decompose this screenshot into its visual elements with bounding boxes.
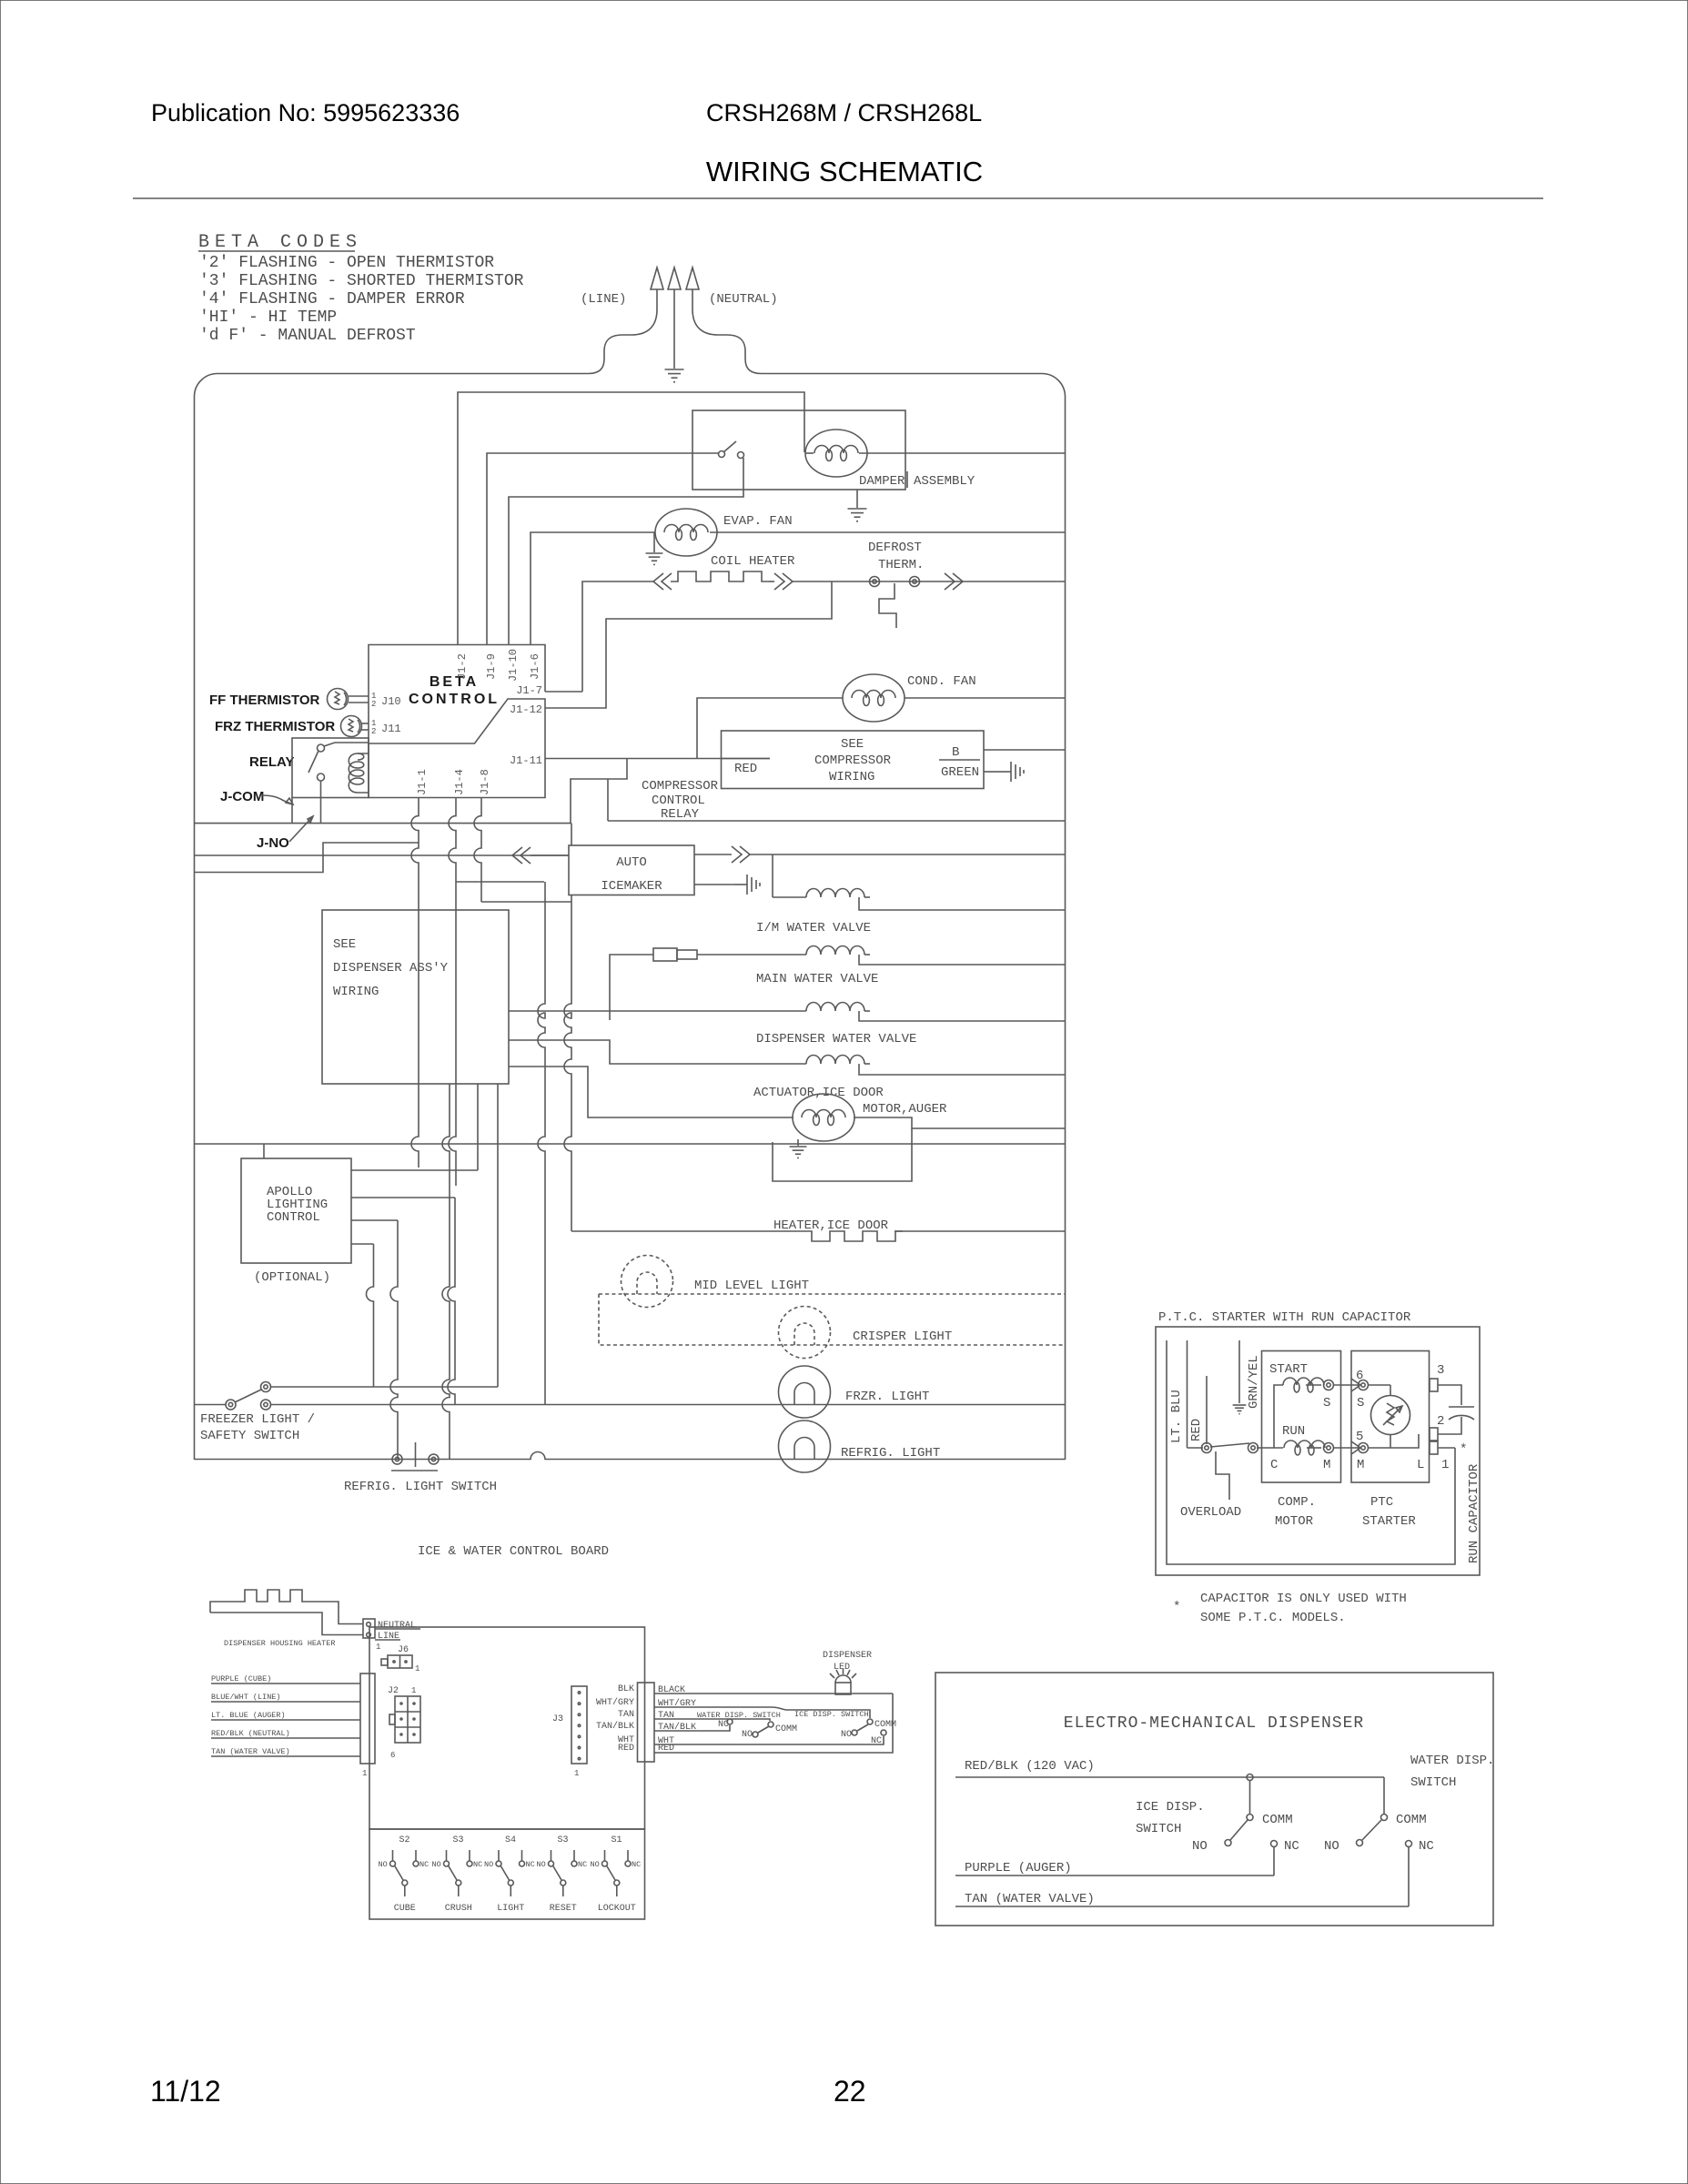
svg-text:MOTOR,AUGER: MOTOR,AUGER — [863, 1102, 947, 1117]
svg-text:COMPRESSOR: COMPRESSOR — [814, 753, 892, 768]
heater ice door element — [804, 1231, 903, 1241]
coil heater to defrost wire — [793, 581, 832, 582]
B wire to neutral — [984, 749, 1065, 751]
earth ground symbol — [665, 369, 684, 382]
svg-text:ICE & WATER CONTROL BOARD: ICE & WATER CONTROL BOARD — [418, 1544, 609, 1559]
svg-text:J1-8: J1-8 — [479, 769, 491, 795]
svg-text:EVAP. FAN: EVAP. FAN — [723, 514, 793, 529]
svg-text:1: 1 — [1441, 1458, 1449, 1472]
svg-text:J1-9: J1-9 — [485, 653, 498, 680]
svg-text:CONTROL: CONTROL — [267, 1210, 320, 1225]
junction — [1247, 1774, 1253, 1781]
svg-text:SWITCH: SWITCH — [1136, 1822, 1181, 1836]
start winding left lead — [1274, 1385, 1283, 1448]
svg-text:NC: NC — [578, 1860, 587, 1869]
svg-text:CONTROL: CONTROL — [409, 692, 500, 707]
svg-text:'4' FLASHING - DAMPER ERROR: '4' FLASHING - DAMPER ERROR — [199, 290, 465, 308]
svg-text:CAPACITOR IS ONLY USED WITH: CAPACITOR IS ONLY USED WITH — [1200, 1592, 1407, 1606]
earth stem — [673, 289, 675, 369]
svg-text:2: 2 — [371, 700, 376, 709]
ice switch NC — [1271, 1841, 1278, 1847]
water switch NC — [1406, 1841, 1412, 1847]
ptc terminal 5 — [1351, 1441, 1360, 1454]
svg-text:DISPENSER HOUSING HEATER: DISPENSER HOUSING HEATER — [224, 1639, 335, 1648]
evap fan ground stem — [653, 532, 655, 552]
coil heater lead — [769, 581, 774, 582]
line arrow — [651, 268, 663, 289]
svg-text:FRZ THERMISTOR: FRZ THERMISTOR — [215, 719, 335, 734]
damper assembly box — [692, 410, 905, 490]
J-NO leader — [289, 816, 313, 842]
green wire — [984, 771, 998, 773]
ice switch COMM contact — [867, 1719, 873, 1724]
svg-text:SOME P.T.C. MODELS.: SOME P.T.C. MODELS. — [1200, 1611, 1346, 1625]
lt blu wire and run loop — [1167, 1340, 1455, 1564]
im valve lead — [773, 896, 806, 898]
svg-text:Publication No: 5995623336: Publication No: 5995623336 — [151, 99, 460, 126]
icemaker wire to neutral — [750, 854, 1065, 855]
damper switch pivot — [719, 451, 725, 458]
right connector — [638, 1683, 655, 1762]
svg-text:FRZR. LIGHT: FRZR. LIGHT — [845, 1390, 929, 1404]
svg-text:M: M — [1357, 1458, 1364, 1472]
svg-text:TAN (WATER VALVE): TAN (WATER VALVE) — [211, 1747, 290, 1756]
svg-text:NC: NC — [871, 1736, 882, 1746]
svg-text:NO: NO — [537, 1860, 546, 1869]
condenser fan motor — [843, 674, 905, 722]
defrost therm terminal 2 — [910, 577, 920, 587]
ptc disc — [1371, 1396, 1410, 1435]
compressor relay wire — [571, 759, 627, 824]
svg-text:NC: NC — [632, 1860, 641, 1869]
red return wire — [654, 1694, 893, 1753]
svg-text:J-COM: J-COM — [220, 789, 264, 804]
wire J1-7 riser to coil heater — [582, 581, 653, 692]
refrig switch contact 1 — [392, 1454, 402, 1464]
svg-text:P.T.C. STARTER WITH RUN CAPACI: P.T.C. STARTER WITH RUN CAPACITOR — [1158, 1310, 1411, 1325]
switch S4 LIGHT — [484, 1835, 535, 1914]
svg-text:COMPRESSOR: COMPRESSOR — [642, 779, 719, 794]
svg-text:M: M — [1323, 1458, 1330, 1472]
beta codes underline — [198, 250, 355, 252]
crisper light — [779, 1307, 831, 1359]
ice switch riser — [1249, 1781, 1251, 1814]
dispenser water valve coil — [806, 1003, 864, 1012]
main valve lead right — [859, 955, 1065, 965]
damper ground — [848, 509, 867, 521]
line neutral connector — [363, 1619, 375, 1638]
svg-text:NC: NC — [419, 1860, 429, 1869]
heater ice door wire right — [895, 1230, 1065, 1232]
svg-text:DAMPER: DAMPER — [859, 474, 905, 489]
svg-text:11/12: 11/12 — [150, 2075, 221, 2108]
capacitor bottom wire — [1438, 1417, 1461, 1434]
damper motor left lead — [805, 452, 814, 454]
svg-text:'HI' - HI TEMP: 'HI' - HI TEMP — [199, 308, 337, 327]
svg-text:NO: NO — [1324, 1839, 1339, 1854]
vertical bus J1-8 — [474, 798, 481, 902]
svg-text:J1-2: J1-2 — [456, 653, 469, 680]
svg-text:RUN: RUN — [1282, 1424, 1305, 1439]
svg-text:2: 2 — [1437, 1414, 1444, 1429]
relay blade — [308, 751, 318, 773]
im valve feed — [772, 854, 773, 897]
svg-text:CRSH268M / CRSH268L: CRSH268M / CRSH268L — [706, 99, 982, 126]
svg-text:LT. BLU: LT. BLU — [1169, 1390, 1184, 1443]
wire PURPLE (CUBE) — [211, 1683, 360, 1684]
svg-text:J10: J10 — [381, 695, 401, 708]
svg-text:RED/BLK (120 VAC): RED/BLK (120 VAC) — [965, 1759, 1095, 1774]
actuator coil stub — [864, 1063, 870, 1065]
wire TAN (WATER VALVE) — [211, 1755, 360, 1757]
svg-text:OVERLOAD: OVERLOAD — [1180, 1505, 1241, 1520]
svg-text:S3: S3 — [453, 1835, 464, 1845]
J-NO contact stub — [320, 781, 322, 824]
svg-text:BLK: BLK — [618, 1684, 634, 1694]
wire J1-11 to compressor relay — [545, 758, 770, 760]
svg-text:'d F' - MANUAL DEFROST: 'd F' - MANUAL DEFROST — [199, 327, 416, 345]
J-COM leader — [261, 795, 293, 804]
svg-text:GRN/YEL: GRN/YEL — [1247, 1355, 1261, 1409]
wire line bus to J1-1 — [195, 843, 419, 873]
vertical bus x599 — [538, 882, 545, 1405]
wire LT. BLUE (AUGER) — [211, 1719, 360, 1721]
relay contact bottom — [318, 773, 325, 781]
vertical bus x628 into icemaker — [571, 824, 572, 845]
grn/yel ground — [1233, 1405, 1247, 1414]
relay contact top — [318, 743, 369, 752]
auger ground — [790, 1147, 807, 1158]
red wire — [1187, 1340, 1188, 1448]
refrig switch contact 2 — [429, 1454, 439, 1464]
neutral arrow — [686, 268, 699, 289]
defrost therm alternate step — [879, 583, 896, 628]
svg-text:RUN CAPACITOR: RUN CAPACITOR — [1467, 1463, 1481, 1563]
svg-text:NO: NO — [841, 1730, 852, 1740]
relay coil — [349, 753, 364, 793]
svg-text:SEE: SEE — [333, 937, 356, 952]
m link wire — [1334, 1447, 1359, 1449]
svg-text:1: 1 — [362, 1769, 367, 1778]
red lead inside box — [722, 758, 771, 760]
svg-text:*: * — [1460, 1442, 1467, 1457]
ptc disc top lead — [1390, 1385, 1391, 1395]
svg-text:COMM: COMM — [874, 1720, 896, 1730]
svg-text:J2: J2 — [388, 1686, 399, 1696]
terminal 1 wire — [1438, 1447, 1455, 1449]
svg-text:J1-12: J1-12 — [510, 703, 542, 716]
overload contact right — [1248, 1443, 1258, 1453]
svg-text:FREEZER LIGHT /: FREEZER LIGHT / — [200, 1412, 315, 1427]
apollo lighting control box — [241, 1158, 351, 1263]
start winding — [1283, 1378, 1324, 1392]
safety switch feed — [195, 1404, 227, 1406]
svg-text:B: B — [952, 745, 959, 760]
svg-text:REFRIG. LIGHT: REFRIG. LIGHT — [841, 1446, 940, 1461]
apollo wire 3 drop — [390, 1220, 398, 1460]
relay box — [292, 738, 369, 798]
svg-text:J1-11: J1-11 — [510, 754, 542, 767]
defrost therm wire — [832, 581, 1065, 582]
svg-text:CRUSH: CRUSH — [445, 1904, 472, 1914]
water switch NO contact — [753, 1732, 758, 1737]
main valve feed — [610, 955, 653, 1020]
icemaker left arrows — [512, 847, 531, 864]
svg-text:ACTUATOR,ICE DOOR: ACTUATOR,ICE DOOR — [753, 1086, 884, 1100]
svg-text:COMM: COMM — [1262, 1813, 1293, 1827]
mid level dashed wire — [599, 1294, 1065, 1345]
s link wire — [1334, 1384, 1359, 1386]
heater ice door wire — [571, 1230, 804, 1232]
svg-text:RED: RED — [734, 762, 757, 776]
svg-text:J11: J11 — [381, 723, 401, 735]
FF thermistor wire 1 — [349, 695, 369, 697]
ice switch NO contact — [852, 1730, 857, 1735]
main box right edge + top-right corner — [1042, 374, 1066, 1461]
svg-text:J6: J6 — [398, 1645, 409, 1655]
ptc starter inner box — [1351, 1351, 1430, 1483]
grn/yel wire — [1238, 1340, 1240, 1403]
svg-text:NC: NC — [473, 1860, 482, 1869]
m wire in ptc — [1368, 1434, 1419, 1448]
refrig light — [779, 1421, 831, 1472]
svg-text:J3: J3 — [552, 1714, 563, 1724]
dispenser to safety switch wire — [497, 1084, 499, 1387]
dispenser led symbol — [830, 1669, 856, 1694]
terminal 2 — [1430, 1428, 1438, 1441]
I/M water valve coil — [806, 889, 864, 898]
coil heater left arrows — [653, 573, 672, 590]
svg-text:PURPLE (CUBE): PURPLE (CUBE) — [211, 1674, 271, 1683]
water switch riser — [1383, 1777, 1385, 1814]
svg-text:ICEMAKER: ICEMAKER — [601, 879, 662, 894]
icemaker chassis ground — [734, 875, 760, 895]
icemaker feed wire — [195, 854, 570, 856]
neutral line underlines — [375, 1628, 420, 1630]
svg-text:COIL HEATER: COIL HEATER — [711, 554, 795, 569]
damper motor coil — [805, 430, 867, 477]
left connector — [360, 1673, 375, 1764]
run capacitor — [1449, 1407, 1474, 1420]
vertical bus J1-4 — [449, 798, 456, 1186]
ice water control board box — [369, 1627, 645, 1829]
main coil stub — [864, 954, 870, 955]
svg-text:1: 1 — [574, 1769, 579, 1778]
ice switch blade em — [1230, 1820, 1248, 1840]
defrost wire arrows — [945, 573, 963, 590]
tan/blk wire — [654, 1725, 730, 1731]
black wire — [654, 1693, 893, 1694]
svg-text:SAFETY SWITCH: SAFETY SWITCH — [200, 1429, 299, 1443]
terminal M ptc — [1359, 1443, 1369, 1453]
wire J1-12 loop to coil heater — [545, 581, 832, 708]
s wire to disc — [1368, 1384, 1390, 1386]
auger feed wire — [509, 1067, 793, 1117]
start winding right lead — [1306, 1384, 1321, 1386]
svg-text:TAN/BLK: TAN/BLK — [596, 1721, 634, 1732]
svg-text:'3' FLASHING - SHORTED THERMIS: '3' FLASHING - SHORTED THERMISTOR — [199, 272, 524, 290]
auger ground stem — [797, 1139, 799, 1146]
svg-text:TAN (WATER VALVE): TAN (WATER VALVE) — [965, 1892, 1095, 1906]
see compressor wiring box — [722, 731, 985, 789]
overload feed — [1188, 1447, 1204, 1449]
wht wire — [654, 1736, 884, 1744]
svg-text:ICE DISP.: ICE DISP. — [1136, 1800, 1205, 1815]
im coil stub — [864, 896, 870, 898]
safety switch pivot — [226, 1400, 236, 1410]
svg-text:S: S — [1323, 1396, 1330, 1410]
svg-text:S1: S1 — [612, 1835, 622, 1845]
svg-text:NC: NC — [1419, 1839, 1434, 1854]
svg-text:MID LEVEL LIGHT: MID LEVEL LIGHT — [694, 1279, 809, 1293]
dispenser valve lead right — [859, 1011, 1065, 1021]
wire RED/BLK (NEUTRAL) — [211, 1737, 360, 1739]
J2 connector grid — [389, 1696, 420, 1743]
main valve connector — [653, 948, 806, 961]
svg-text:CUBE: CUBE — [394, 1904, 416, 1914]
svg-text:WIRING SCHEMATIC: WIRING SCHEMATIC — [706, 156, 983, 187]
svg-text:J1-10: J1-10 — [507, 649, 520, 682]
red stub — [1206, 1376, 1208, 1444]
damper motor lead to neutral — [859, 452, 1065, 454]
wire J1-10 to damper switch contact — [509, 458, 743, 644]
svg-text:NO: NO — [742, 1730, 753, 1740]
J-COM wire to line bus — [195, 798, 293, 824]
safety switch contact 2 — [261, 1400, 271, 1410]
svg-text:S4: S4 — [505, 1835, 516, 1845]
svg-text:BETA CODES: BETA CODES — [198, 232, 362, 253]
im valve lead right — [859, 897, 1065, 910]
water switch NO — [1357, 1840, 1363, 1846]
svg-text:WIRING: WIRING — [829, 770, 874, 784]
vertical bus J1-1 — [411, 798, 419, 1168]
svg-text:DISPENSER: DISPENSER — [823, 1651, 872, 1661]
dispenser housing heater element — [210, 1590, 363, 1635]
dispenser valve wire — [509, 1010, 806, 1012]
svg-text:WHT/GRY: WHT/GRY — [596, 1697, 634, 1708]
apollo wire 1 riser — [477, 1084, 479, 1170]
title rule — [133, 197, 1543, 199]
svg-text:PURPLE (AUGER): PURPLE (AUGER) — [965, 1861, 1072, 1876]
svg-text:1: 1 — [411, 1686, 416, 1695]
refrig light switch plunger — [391, 1442, 438, 1471]
coil heater right arrows — [774, 573, 793, 590]
terminal S motor — [1324, 1380, 1334, 1390]
actuator lead right — [859, 1064, 1065, 1075]
svg-text:(NEUTRAL): (NEUTRAL) — [709, 292, 778, 307]
auger motor — [793, 1094, 854, 1141]
center arrow — [668, 268, 681, 289]
terminal 3 — [1430, 1379, 1438, 1391]
auger return wire — [773, 1128, 912, 1181]
svg-text:COMM: COMM — [775, 1724, 797, 1734]
nc to purple wire — [1273, 1847, 1275, 1876]
dispenser coil stub — [864, 1010, 870, 1012]
svg-text:NO: NO — [591, 1860, 600, 1869]
apollo wire 3 — [351, 1219, 398, 1221]
svg-text:THERM.: THERM. — [878, 558, 924, 572]
svg-text:LT. BLUE (AUGER): LT. BLUE (AUGER) — [211, 1711, 286, 1720]
ice switch COMM — [1247, 1815, 1253, 1821]
dispenser output wire 1 — [442, 1084, 450, 1460]
svg-text:J1-6: J1-6 — [529, 653, 541, 680]
svg-text:(LINE): (LINE) — [581, 292, 626, 307]
ptc starter outer box — [1156, 1327, 1480, 1575]
wire BLUE/WHT (LINE) — [211, 1701, 360, 1703]
svg-text:RESET: RESET — [550, 1904, 577, 1914]
svg-text:J1-7: J1-7 — [516, 684, 542, 697]
icemaker feed lead — [531, 854, 569, 856]
nc to tan wire — [1408, 1847, 1410, 1906]
main box left edge + top-left corner — [195, 374, 218, 1461]
B underline — [939, 759, 980, 761]
switch S2 CUBE — [379, 1835, 430, 1914]
svg-text:COMM: COMM — [1396, 1813, 1427, 1827]
evap fan lead to neutral — [710, 531, 1065, 533]
comp motor box — [1262, 1351, 1341, 1483]
svg-text:6: 6 — [390, 1751, 395, 1760]
svg-text:22: 22 — [834, 2075, 866, 2108]
svg-text:ICE DISP. SWITCH: ICE DISP. SWITCH — [794, 1710, 869, 1719]
compressor return wire — [608, 820, 1065, 822]
ice switch NC contact — [881, 1730, 886, 1735]
svg-text:STARTER: STARTER — [1362, 1514, 1416, 1529]
svg-text:NO: NO — [484, 1860, 493, 1869]
svg-text:5: 5 — [1356, 1430, 1363, 1444]
ptc terminal 6 — [1351, 1379, 1360, 1391]
svg-text:LOCKOUT: LOCKOUT — [598, 1904, 636, 1914]
damper switch contact — [738, 452, 744, 459]
tan wire — [654, 1719, 770, 1721]
water switch COMM — [1381, 1815, 1388, 1821]
svg-text:ELECTRO-MECHANICAL DISPENSER: ELECTRO-MECHANICAL DISPENSER — [1064, 1714, 1364, 1733]
svg-text:RED/BLK (NEUTRAL): RED/BLK (NEUTRAL) — [211, 1729, 290, 1738]
overload blade — [1210, 1443, 1249, 1447]
frzr light wire — [270, 1404, 1065, 1406]
switch S1 LOCKOUT — [591, 1835, 642, 1914]
terminal M motor — [1324, 1443, 1334, 1453]
svg-text:*: * — [1173, 1600, 1180, 1614]
wire J1-7 — [545, 691, 582, 693]
apollo wire 4 drop — [367, 1244, 374, 1387]
svg-text:NC: NC — [1284, 1839, 1299, 1854]
red/blk wire — [955, 1776, 1384, 1778]
line arrow stem — [656, 289, 658, 309]
svg-text:L: L — [1417, 1458, 1424, 1472]
svg-text:LED: LED — [834, 1663, 850, 1673]
branch J1-8 — [481, 901, 571, 903]
svg-text:DISPENSER ASS'Y: DISPENSER ASS'Y — [333, 961, 449, 976]
svg-text:J1-1: J1-1 — [416, 769, 429, 795]
branch to dispenser feed — [456, 881, 544, 883]
FF thermistor bulb — [328, 689, 349, 710]
apollo wire 2 drop — [448, 1198, 455, 1405]
tan wire — [955, 1906, 1409, 1907]
water switch blade em — [1362, 1820, 1381, 1840]
run winding — [1284, 1441, 1325, 1455]
safety switch blade — [235, 1390, 261, 1402]
J3 connector — [571, 1686, 587, 1764]
label divider — [906, 471, 908, 488]
FRZ thermistor bulb — [341, 716, 362, 737]
water switch NC contact — [727, 1719, 733, 1724]
frzr light — [779, 1366, 831, 1418]
main water valve coil — [806, 946, 864, 955]
wht/gry wire — [654, 1707, 870, 1718]
svg-text:C: C — [1270, 1458, 1278, 1472]
svg-text:ASSEMBLY: ASSEMBLY — [914, 474, 975, 489]
switch bank box — [369, 1829, 645, 1919]
